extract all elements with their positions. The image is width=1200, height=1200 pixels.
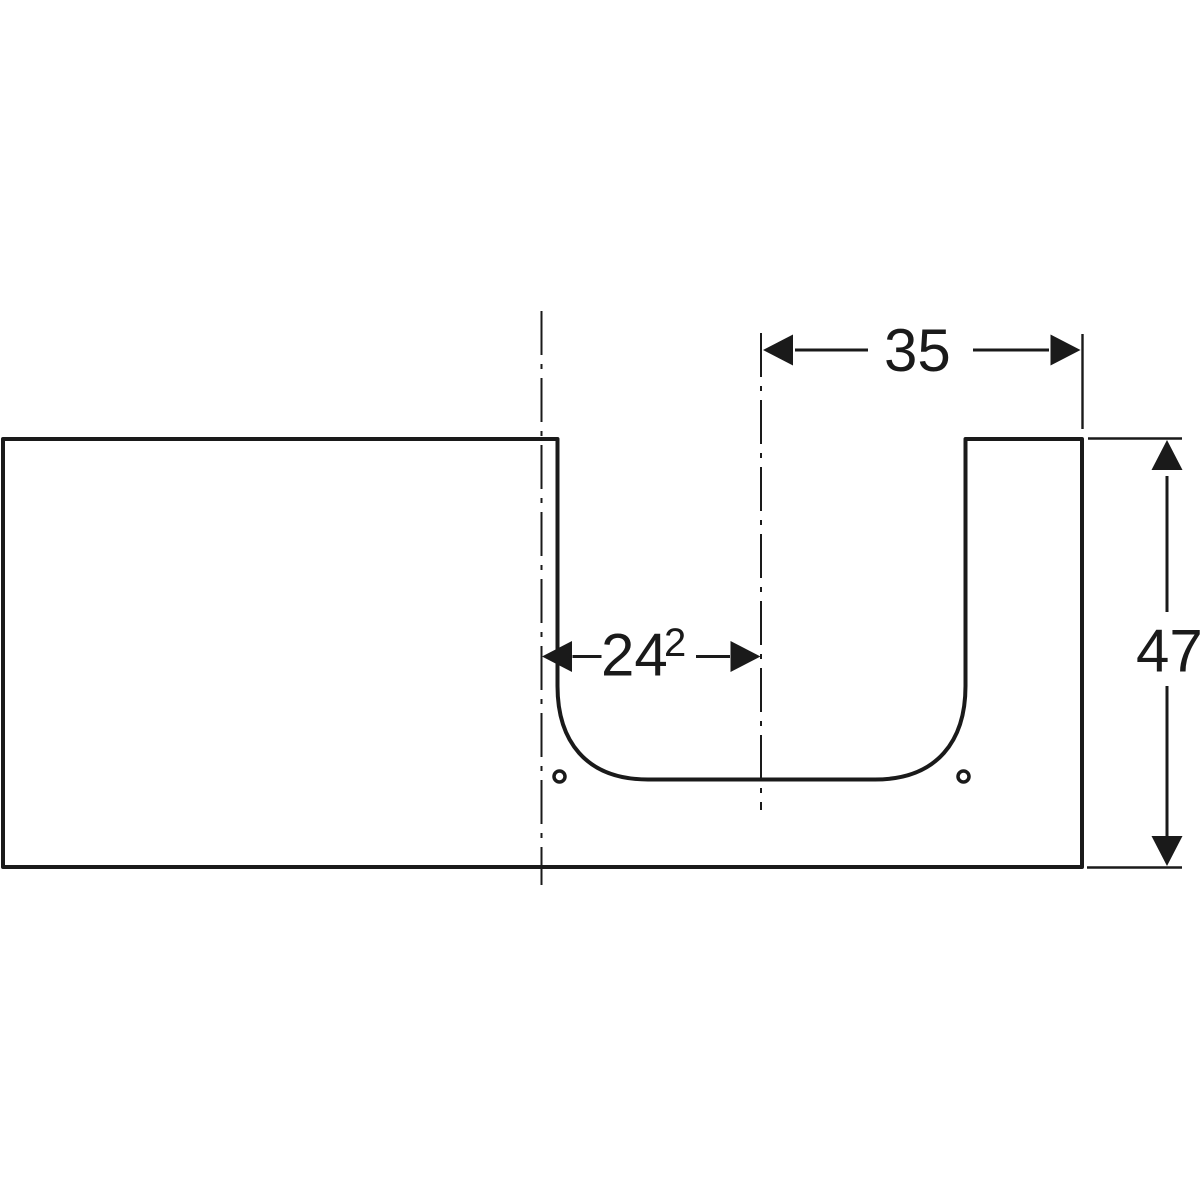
svg-text:47: 47 <box>1136 618 1200 685</box>
svg-text:2: 2 <box>664 621 686 665</box>
svg-text:35: 35 <box>884 317 951 384</box>
svg-text:24: 24 <box>601 622 668 689</box>
